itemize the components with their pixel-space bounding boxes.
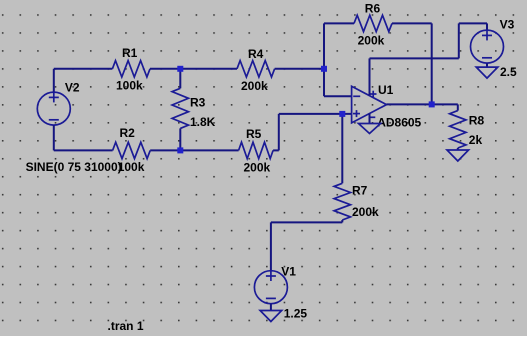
svg-text:R2: R2	[120, 126, 136, 140]
wire V+ riser	[458, 23, 460, 58]
wire R6 left lead	[324, 22, 354, 24]
svg-text:1.8K: 1.8K	[190, 115, 216, 129]
resistor R2 body	[113, 142, 151, 158]
wire R8 bottom lead	[457, 148, 459, 150]
svg-text:R1: R1	[122, 46, 138, 60]
node output/R6/R8 junction	[429, 101, 435, 107]
wire V- pin	[369, 113, 371, 123]
svg-text:200k: 200k	[352, 205, 379, 219]
svg-text:200k: 200k	[241, 79, 268, 93]
wire node down to inverting input	[323, 69, 325, 96]
wire R8 top lead	[457, 104, 459, 110]
op-amp U1	[352, 86, 387, 123]
resistor R7 body	[334, 183, 350, 220]
node noninverting/R7 junction	[339, 111, 345, 117]
svg-text:R3: R3	[190, 96, 206, 110]
wire R6 down to output	[431, 23, 433, 104]
svg-text:R4: R4	[248, 47, 264, 61]
voltage source V3 body	[471, 30, 504, 63]
resistor R5 body	[239, 142, 274, 158]
wire V3 top lead	[486, 23, 488, 30]
voltage source V1 body	[254, 271, 287, 304]
svg-text:2k: 2k	[469, 133, 483, 147]
wire V1 bottom lead	[270, 304, 272, 311]
wire V+ pin	[369, 58, 371, 95]
ground R8 ground	[447, 150, 469, 161]
voltage source V2 body	[37, 92, 70, 125]
svg-text:200k: 200k	[358, 34, 385, 48]
wire R1 to R4	[150, 68, 237, 70]
node R2/R3/R5 junction	[177, 147, 183, 153]
wire + input down to R7	[341, 114, 343, 183]
ground V3 ground	[476, 67, 498, 78]
wire V2 bottom lead	[53, 125, 55, 150]
wire V2 to R2	[54, 149, 113, 151]
wire R7 bottom lead	[341, 220, 343, 222]
svg-text:R5: R5	[246, 127, 262, 141]
svg-text:.tran 1: .tran 1	[108, 319, 144, 333]
svg-text:V2: V2	[65, 81, 80, 95]
resistor R6 body	[354, 15, 392, 31]
wire V+ to V3 horizontal	[370, 57, 459, 59]
wire V3 bottom lead	[486, 63, 488, 67]
wire node up to R6 row	[323, 23, 325, 68]
svg-text:1.25: 1.25	[284, 307, 308, 321]
svg-text:R6: R6	[365, 1, 381, 15]
wire R6 right lead	[392, 22, 432, 24]
wire to op-amp noninverting input	[279, 113, 352, 115]
svg-text:100k: 100k	[116, 79, 143, 93]
svg-text:2.5: 2.5	[500, 65, 517, 79]
svg-text:100k: 100k	[118, 160, 145, 174]
wire R4 to node	[275, 68, 324, 70]
svg-text:SINE(0 75 31000): SINE(0 75 31000)	[26, 160, 122, 174]
wire to V3 top	[459, 22, 487, 24]
wire R5 right lead	[273, 149, 279, 151]
svg-text:U1: U1	[378, 83, 394, 97]
resistor R1 body	[112, 61, 150, 77]
svg-text:V1: V1	[281, 265, 296, 279]
node R4/R6/inverting junction	[321, 66, 327, 72]
wire R5 up to + input row	[278, 114, 280, 150]
wire R3 top lead	[179, 69, 181, 89]
wire V2 top to R1	[54, 68, 113, 70]
resistor R8 body	[450, 111, 466, 148]
wire to op-amp inverting input	[324, 95, 352, 97]
resistor R4 body	[237, 61, 275, 77]
ground op-amp V- ground	[359, 124, 381, 134]
wire op-amp output	[387, 103, 458, 105]
resistor R3 body	[172, 88, 188, 128]
svg-text:200k: 200k	[244, 161, 271, 175]
wire down to V1	[270, 222, 272, 270]
svg-text:R7: R7	[352, 184, 368, 198]
svg-text:R8: R8	[469, 114, 485, 128]
node R1/R3/R4 junction	[177, 66, 183, 72]
svg-text:V3: V3	[500, 18, 515, 32]
svg-text:AD8605: AD8605	[377, 116, 421, 130]
ground V1 ground	[260, 311, 282, 322]
wire V2 top lead	[53, 69, 55, 92]
wire R3 bottom lead	[179, 128, 181, 150]
wire R7 to V1 horizontal	[271, 221, 342, 223]
wire R2 to R5	[150, 149, 238, 151]
